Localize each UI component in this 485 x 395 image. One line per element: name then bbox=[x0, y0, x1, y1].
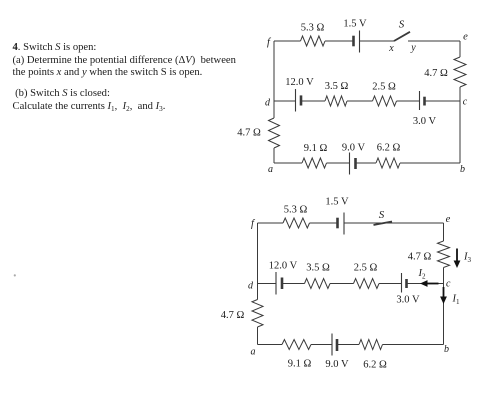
svg-text:6.2 Ω: 6.2 Ω bbox=[363, 360, 387, 371]
wire: circuit2 left side f to d to a bbox=[257, 223, 259, 300]
svg-text:12.0 V: 12.0 V bbox=[285, 77, 314, 88]
resistor 3.5ohm circuit1 bbox=[325, 96, 347, 106]
svg-text:S: S bbox=[399, 19, 405, 31]
battery 1.5V circuit2 (short thick left, tall thin right) bbox=[336, 218, 339, 229]
svg-text:9.0 V: 9.0 V bbox=[325, 359, 349, 370]
wire: circuit2 right side c to b bbox=[443, 284, 445, 345]
resistor 4.7ohm left side circuit2 bbox=[252, 300, 263, 328]
svg-text:9.1 Ω: 9.1 Ω bbox=[288, 359, 312, 370]
svg-text:12.0 V: 12.0 V bbox=[269, 261, 298, 272]
svg-text:4.7 Ω: 4.7 Ω bbox=[221, 310, 245, 321]
resistor 4.7ohm left side circuit1 bbox=[269, 118, 280, 148]
svg-text:b: b bbox=[444, 344, 449, 355]
current arrow I1 bbox=[443, 287, 445, 299]
svg-text:c: c bbox=[446, 279, 451, 290]
svg-text:3.0 V: 3.0 V bbox=[396, 295, 420, 306]
wire: circuit1 right side c to b bbox=[459, 101, 461, 163]
svg-text:3.5 Ω: 3.5 Ω bbox=[306, 263, 330, 274]
svg-text:2.5 Ω: 2.5 Ω bbox=[354, 263, 378, 274]
svg-text:x: x bbox=[388, 43, 394, 54]
svg-text:b: b bbox=[460, 164, 465, 175]
resistor 4.7ohm right side circuit1 bbox=[454, 57, 466, 87]
wire: circuit1 bottom a to b bbox=[274, 162, 302, 164]
battery 12.0V circuit2 (tall thin left, short thick right) bbox=[275, 272, 277, 295]
current arrow I2 bbox=[426, 283, 439, 285]
svg-text:4.7 Ω: 4.7 Ω bbox=[237, 128, 261, 139]
svg-text:d: d bbox=[265, 98, 271, 109]
svg-text:e: e bbox=[463, 32, 468, 43]
battery 9.0V circuit1 (tall thin left, short thick right) bbox=[349, 153, 351, 175]
svg-text:3.5 Ω: 3.5 Ω bbox=[325, 81, 349, 92]
resistor 2.5ohm circuit1 bbox=[373, 96, 397, 106]
wire: circuit2 bottom a to b bbox=[258, 344, 283, 346]
resistor 9.1ohm circuit2 bbox=[282, 340, 311, 350]
svg-text:a: a bbox=[251, 347, 256, 358]
svg-text:5.3 Ω: 5.3 Ω bbox=[301, 23, 325, 34]
resistor 5.3ohm circuit2 bbox=[283, 218, 310, 228]
svg-text:9.0 V: 9.0 V bbox=[342, 143, 366, 154]
svg-text:e: e bbox=[446, 214, 451, 225]
current arrow I3 bbox=[456, 249, 458, 263]
battery 3.0V circuit1 (tall thin left, short thick right) bbox=[419, 91, 421, 110]
svg-text:I3: I3 bbox=[463, 252, 472, 265]
wire: circuit1 left side f to d to a bbox=[273, 41, 275, 118]
svg-text:2.5 Ω: 2.5 Ω bbox=[372, 82, 396, 93]
svg-text:6.2 Ω: 6.2 Ω bbox=[377, 143, 401, 154]
svg-text:4.7 Ω: 4.7 Ω bbox=[424, 68, 448, 79]
svg-text:d: d bbox=[248, 281, 254, 292]
battery 3.0V circuit2 (tall thin left, short thick right) bbox=[401, 273, 403, 293]
svg-text:a: a bbox=[268, 164, 273, 175]
battery 9.0V circuit2 (tall thin left, short thick right) bbox=[331, 334, 333, 356]
wire: circuit1 right side e to c bbox=[459, 41, 461, 57]
svg-text:y: y bbox=[410, 43, 416, 54]
wire: circuit2 middle d to c bbox=[258, 283, 277, 285]
battery 1.5V circuit1 (short thick left, tall thin right) bbox=[352, 36, 355, 47]
switch S open circuit1 blade bbox=[394, 32, 410, 41]
switch S closed circuit2 blade bbox=[374, 222, 393, 226]
resistor 6.2ohm circuit2 bbox=[359, 340, 383, 350]
wire: circuit2 right side e to c bbox=[443, 223, 445, 241]
resistor R 5.3ohm circuit1 top bbox=[301, 36, 326, 46]
stray dot mark bbox=[14, 274, 16, 276]
battery 12.0V circuit1 (tall thin left, short thick right) bbox=[295, 89, 297, 112]
svg-text:f: f bbox=[251, 219, 256, 230]
svg-text:I1: I1 bbox=[452, 294, 461, 307]
svg-text:5.3 Ω: 5.3 Ω bbox=[284, 205, 308, 216]
resistor 4.7ohm right side circuit2 bbox=[438, 241, 450, 268]
svg-text:I2: I2 bbox=[418, 268, 427, 281]
svg-text:1.5 V: 1.5 V bbox=[343, 19, 367, 30]
wire: circuit1 top f to switch bbox=[274, 40, 301, 42]
wire: circuit1 middle d to c bbox=[274, 100, 296, 102]
resistor 6.2ohm circuit1 bbox=[376, 158, 400, 168]
resistor 9.1ohm circuit1 bbox=[302, 158, 327, 168]
svg-text:S: S bbox=[379, 209, 385, 221]
svg-text:4.7 Ω: 4.7 Ω bbox=[408, 252, 432, 263]
wire: circuit1 top y to e bbox=[408, 40, 460, 42]
svg-text:9.1 Ω: 9.1 Ω bbox=[304, 143, 328, 154]
svg-text:3.0 V: 3.0 V bbox=[413, 116, 437, 127]
problem text bbox=[13, 42, 263, 114]
svg-text:f: f bbox=[267, 37, 272, 48]
resistor 3.5ohm circuit2 bbox=[305, 279, 331, 289]
svg-text:1.5 V: 1.5 V bbox=[325, 197, 349, 208]
wire: circuit2 top f to e bbox=[258, 222, 284, 224]
svg-text:c: c bbox=[463, 97, 468, 108]
resistor 2.5ohm circuit2 bbox=[354, 279, 380, 289]
